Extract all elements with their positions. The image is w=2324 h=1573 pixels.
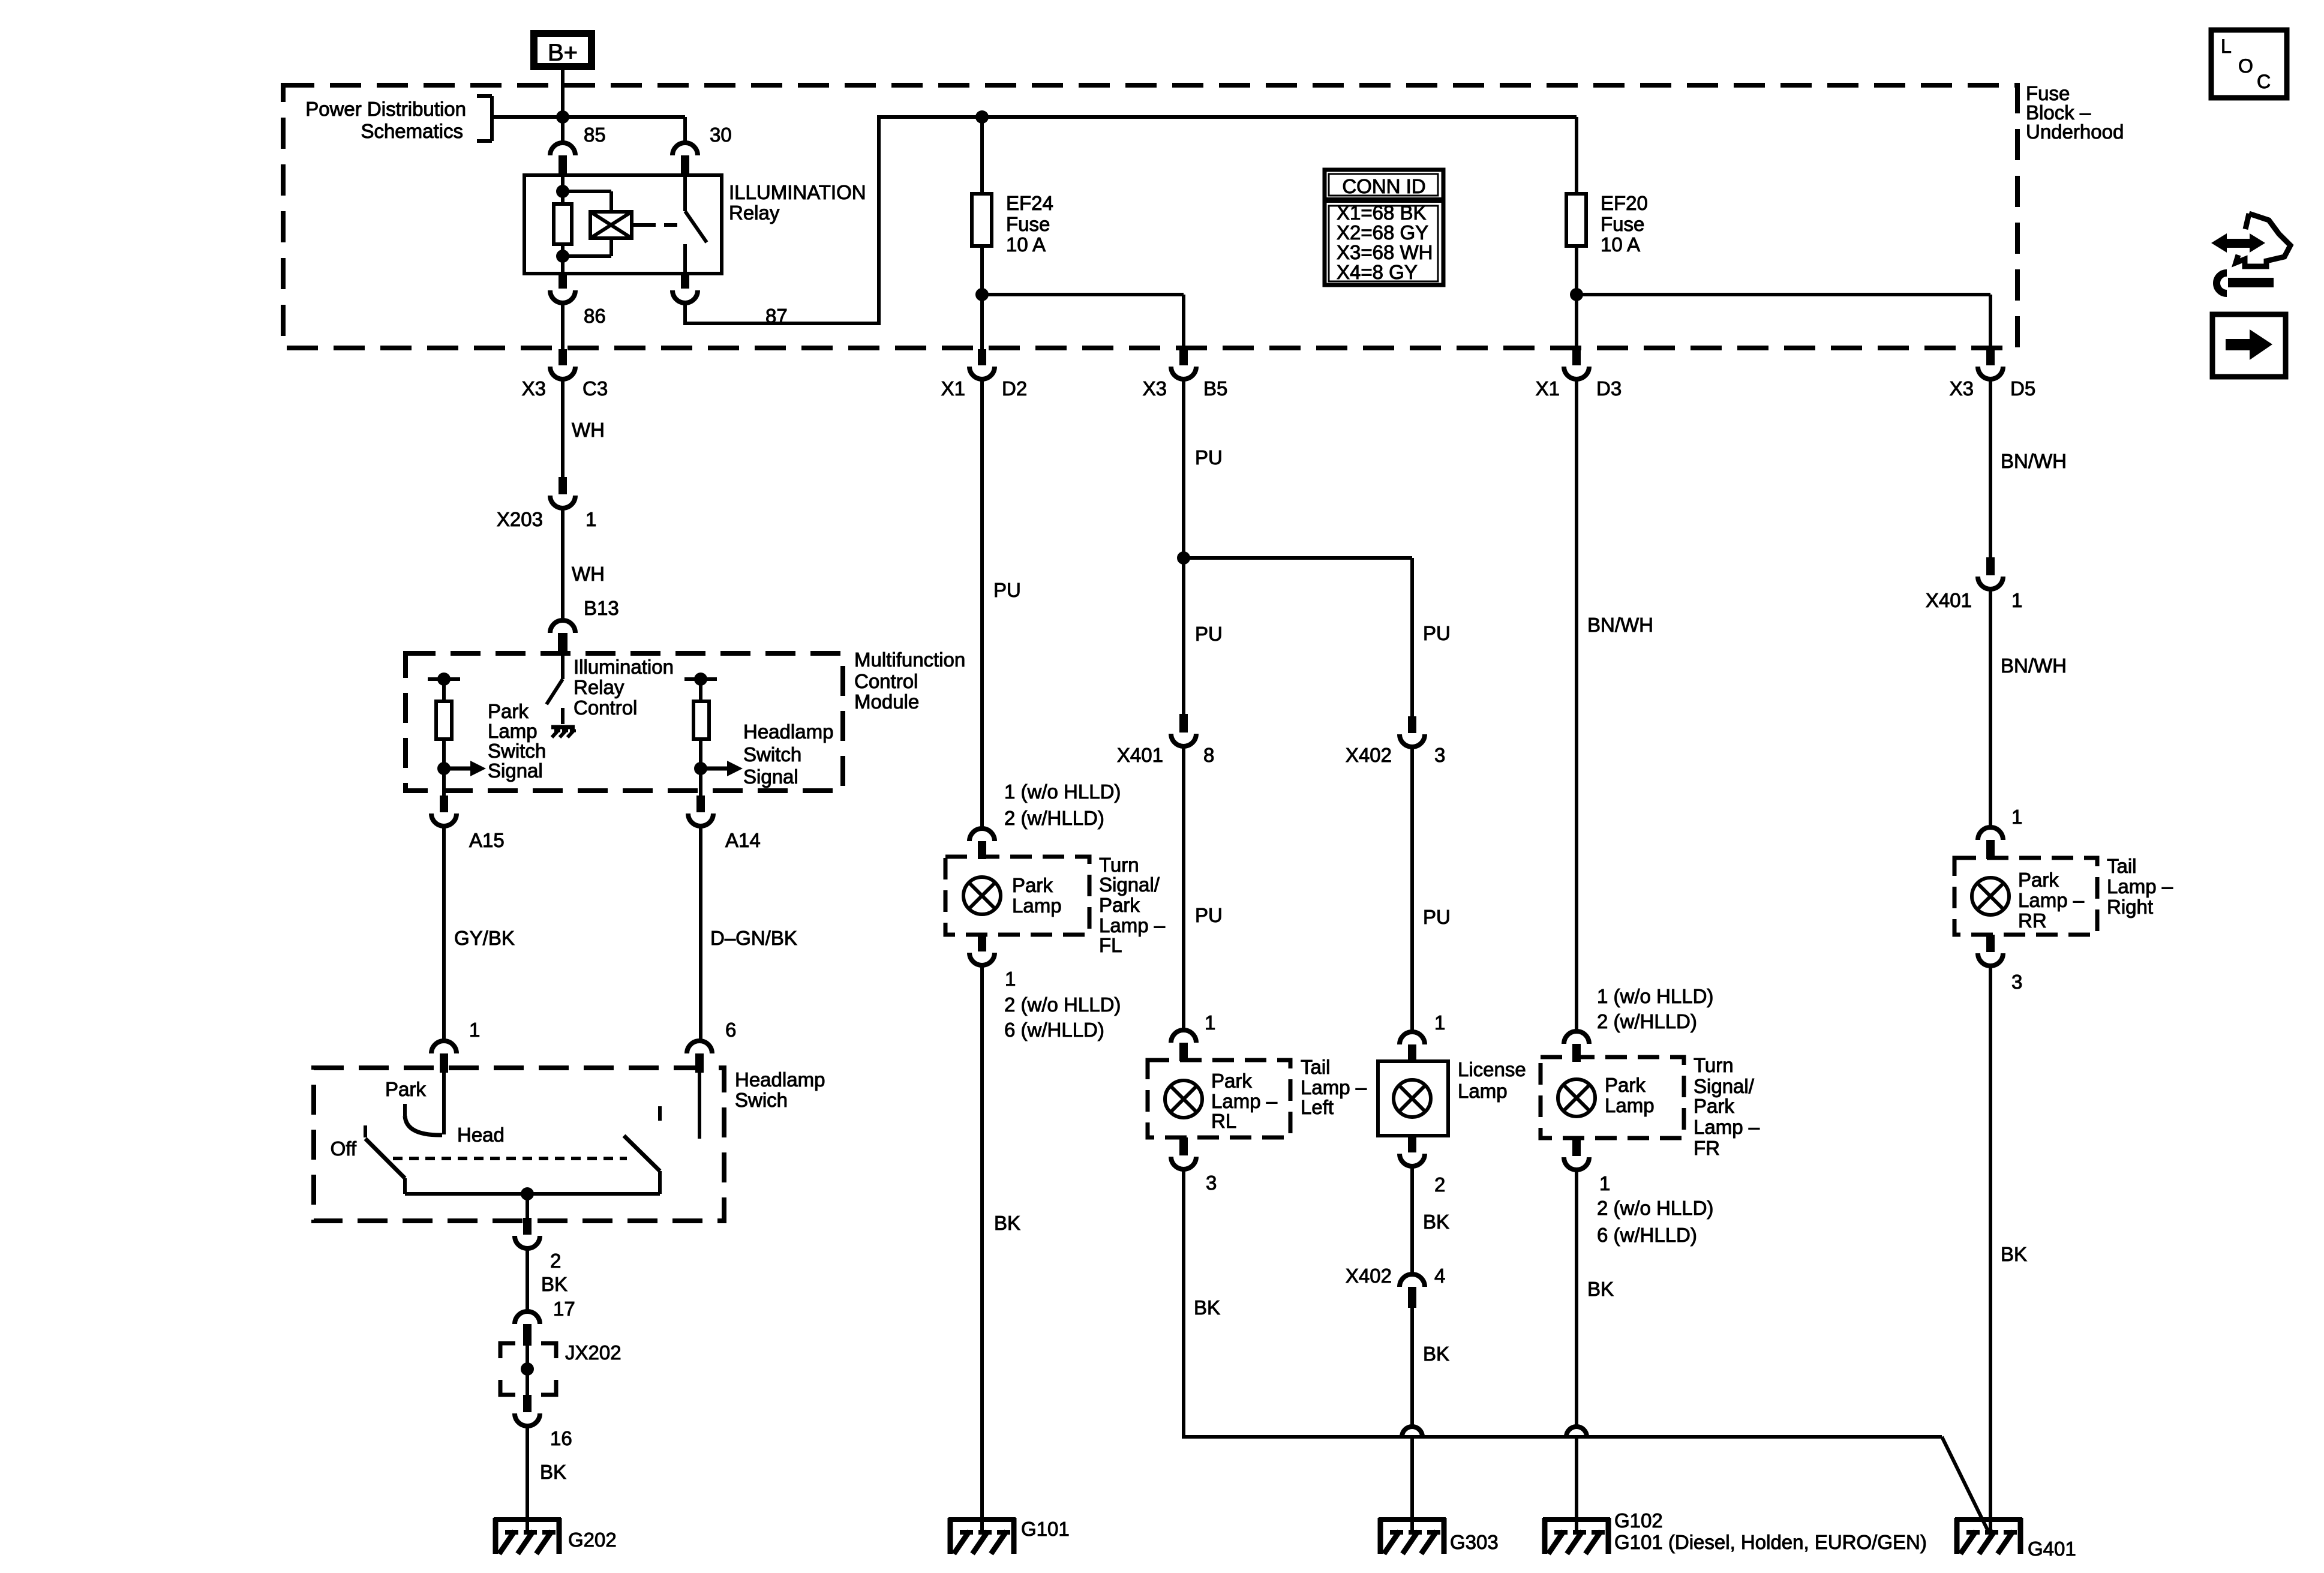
svg-text:Signal: Signal	[743, 766, 798, 788]
svg-text:BN/WH: BN/WH	[2001, 450, 2067, 472]
svg-text:D5: D5	[2010, 377, 2035, 400]
svg-text:Lamp –: Lamp –	[1211, 1090, 1278, 1112]
svg-text:Lamp: Lamp	[488, 720, 538, 742]
svg-text:X402: X402	[1346, 1265, 1392, 1287]
svg-text:PU: PU	[1423, 622, 1451, 644]
svg-text:BK: BK	[1423, 1343, 1449, 1365]
svg-text:Headlamp: Headlamp	[735, 1068, 825, 1091]
svg-text:8: 8	[1203, 744, 1214, 766]
svg-text:BN/WH: BN/WH	[1587, 614, 1653, 636]
svg-text:X402: X402	[1346, 744, 1392, 766]
svg-text:C3: C3	[582, 377, 608, 400]
svg-text:Lamp –: Lamp –	[1099, 914, 1166, 936]
svg-text:Relay: Relay	[574, 676, 624, 698]
svg-text:Lamp: Lamp	[1458, 1080, 1508, 1102]
svg-text:D2: D2	[1002, 377, 1027, 400]
svg-text:Tail: Tail	[2107, 855, 2137, 877]
svg-text:X4=8 GY: X4=8 GY	[1337, 261, 1418, 283]
svg-text:3: 3	[2011, 971, 2022, 993]
svg-text:30: 30	[710, 124, 732, 146]
svg-text:WH: WH	[572, 563, 605, 585]
svg-text:X401: X401	[1926, 589, 1972, 611]
svg-text:1: 1	[1434, 1011, 1445, 1034]
svg-text:Signal/: Signal/	[1099, 873, 1160, 896]
svg-text:Park: Park	[1605, 1074, 1646, 1096]
svg-text:Schematics: Schematics	[361, 120, 463, 142]
svg-text:2: 2	[550, 1250, 561, 1272]
svg-text:85: 85	[584, 124, 606, 146]
svg-text:X3: X3	[1950, 377, 1974, 400]
svg-text:Turn: Turn	[1694, 1054, 1734, 1076]
svg-text:Underhood: Underhood	[2026, 121, 2124, 143]
svg-text:G101 (Diesel, Holden, EURO/GEN: G101 (Diesel, Holden, EURO/GEN)	[1614, 1531, 1927, 1553]
svg-text:Off: Off	[331, 1137, 357, 1160]
svg-text:D–GN/BK: D–GN/BK	[710, 927, 797, 949]
svg-text:10 A: 10 A	[1601, 233, 1640, 256]
svg-text:Lamp –: Lamp –	[1301, 1076, 1367, 1098]
svg-text:Right: Right	[2107, 896, 2153, 918]
svg-text:6 (w/HLLD): 6 (w/HLLD)	[1004, 1019, 1104, 1041]
svg-text:Park: Park	[1099, 894, 1140, 916]
svg-text:Lamp –: Lamp –	[2018, 889, 2085, 911]
svg-text:G303: G303	[1450, 1531, 1499, 1553]
svg-text:X3: X3	[1143, 377, 1167, 400]
svg-text:10 A: 10 A	[1006, 233, 1046, 256]
svg-text:Lamp –: Lamp –	[2107, 875, 2173, 897]
svg-text:Signal: Signal	[488, 760, 543, 782]
svg-text:WH: WH	[572, 419, 605, 441]
svg-text:PU: PU	[1195, 446, 1223, 469]
svg-text:A14: A14	[725, 829, 761, 851]
svg-text:17: 17	[553, 1298, 575, 1320]
svg-text:X203: X203	[497, 508, 543, 530]
svg-text:L: L	[2221, 35, 2232, 57]
svg-text:X2=68 GY: X2=68 GY	[1337, 221, 1428, 244]
svg-text:EF24: EF24	[1006, 192, 1053, 214]
svg-text:Park: Park	[2018, 869, 2059, 891]
svg-text:PU: PU	[993, 579, 1021, 601]
svg-text:Park: Park	[1012, 874, 1053, 896]
svg-text:C: C	[2257, 71, 2271, 92]
svg-text:1: 1	[469, 1019, 480, 1041]
svg-text:1: 1	[2011, 589, 2022, 611]
svg-text:Park: Park	[488, 700, 529, 722]
svg-text:3: 3	[1206, 1172, 1217, 1194]
svg-text:X3=68 WH: X3=68 WH	[1337, 241, 1433, 263]
svg-text:Control: Control	[854, 670, 918, 692]
svg-text:PU: PU	[1195, 623, 1223, 645]
svg-text:ILLUMINATION: ILLUMINATION	[729, 181, 866, 203]
svg-text:1: 1	[1005, 968, 1016, 990]
svg-text:BK: BK	[2001, 1243, 2027, 1265]
svg-text:Swich: Swich	[735, 1089, 788, 1111]
svg-text:Control: Control	[574, 697, 637, 719]
svg-text:BK: BK	[994, 1212, 1020, 1234]
svg-text:PU: PU	[1195, 904, 1223, 926]
svg-text:Headlamp: Headlamp	[743, 721, 833, 743]
svg-text:GY/BK: GY/BK	[454, 927, 515, 949]
svg-text:BK: BK	[1194, 1296, 1220, 1319]
svg-text:RR: RR	[2018, 909, 2047, 932]
svg-text:Lamp: Lamp	[1605, 1094, 1655, 1116]
svg-text:JX202: JX202	[565, 1341, 621, 1364]
svg-text:G202: G202	[568, 1529, 617, 1551]
svg-text:4: 4	[1434, 1265, 1445, 1287]
svg-text:BK: BK	[541, 1273, 568, 1295]
svg-text:G102: G102	[1614, 1509, 1663, 1532]
svg-text:O: O	[2238, 55, 2253, 77]
svg-text:BK: BK	[540, 1461, 566, 1483]
svg-text:BN/WH: BN/WH	[2001, 655, 2067, 677]
svg-text:Switch: Switch	[488, 740, 546, 762]
svg-text:1: 1	[2011, 806, 2022, 828]
svg-text:CONN ID: CONN ID	[1342, 175, 1425, 197]
svg-text:Module: Module	[854, 691, 919, 713]
svg-text:X1=68 BK: X1=68 BK	[1337, 202, 1427, 224]
svg-text:Park: Park	[385, 1078, 426, 1100]
svg-text:BK: BK	[1587, 1278, 1614, 1300]
svg-text:Lamp: Lamp	[1012, 894, 1062, 917]
svg-text:Illumination: Illumination	[574, 656, 674, 678]
svg-text:FL: FL	[1099, 934, 1122, 956]
svg-text:RL: RL	[1211, 1110, 1236, 1132]
svg-text:PU: PU	[1423, 906, 1451, 928]
svg-text:B+: B+	[548, 40, 578, 66]
svg-text:Fuse: Fuse	[1006, 213, 1050, 235]
svg-text:2 (w/HLLD): 2 (w/HLLD)	[1004, 807, 1104, 829]
svg-text:6 (w/HLLD): 6 (w/HLLD)	[1597, 1224, 1697, 1246]
svg-text:X3: X3	[522, 377, 546, 400]
svg-text:Power Distribution: Power Distribution	[305, 98, 466, 120]
svg-text:3: 3	[1434, 744, 1445, 766]
svg-text:2 (w/o HLLD): 2 (w/o HLLD)	[1597, 1197, 1713, 1219]
svg-text:Fuse: Fuse	[1601, 213, 1644, 235]
svg-text:X1: X1	[1536, 377, 1560, 400]
svg-text:Left: Left	[1301, 1096, 1334, 1118]
svg-text:Park: Park	[1694, 1095, 1734, 1117]
svg-text:Park: Park	[1211, 1070, 1252, 1092]
svg-text:Switch: Switch	[743, 743, 801, 766]
svg-text:Signal/: Signal/	[1694, 1075, 1755, 1097]
svg-text:License: License	[1458, 1058, 1526, 1080]
svg-text:Head: Head	[457, 1124, 505, 1146]
svg-text:X1: X1	[941, 377, 965, 400]
svg-text:2: 2	[1434, 1173, 1445, 1196]
svg-text:Relay: Relay	[729, 202, 780, 224]
svg-text:2 (w/o HLLD): 2 (w/o HLLD)	[1004, 993, 1121, 1016]
svg-text:A15: A15	[469, 829, 505, 851]
svg-text:1: 1	[585, 508, 596, 530]
svg-text:FR: FR	[1694, 1137, 1720, 1159]
svg-text:Multifunction: Multifunction	[854, 649, 965, 671]
svg-text:EF20: EF20	[1601, 192, 1648, 214]
svg-text:16: 16	[550, 1427, 572, 1449]
svg-text:86: 86	[584, 305, 606, 327]
svg-text:B5: B5	[1203, 377, 1227, 400]
svg-text:Lamp –: Lamp –	[1694, 1116, 1760, 1138]
svg-text:G101: G101	[1021, 1518, 1070, 1540]
svg-text:1 (w/o HLLD): 1 (w/o HLLD)	[1004, 781, 1121, 803]
svg-text:1: 1	[1599, 1172, 1610, 1194]
svg-text:1 (w/o HLLD): 1 (w/o HLLD)	[1597, 985, 1713, 1007]
svg-text:B13: B13	[584, 597, 619, 619]
svg-text:X401: X401	[1117, 744, 1163, 766]
svg-text:D3: D3	[1596, 377, 1622, 400]
svg-text:6: 6	[725, 1019, 736, 1041]
svg-text:Turn: Turn	[1099, 854, 1139, 876]
svg-text:BK: BK	[1423, 1211, 1449, 1233]
svg-text:2 (w/HLLD): 2 (w/HLLD)	[1597, 1010, 1697, 1032]
svg-text:G401: G401	[2028, 1538, 2076, 1560]
svg-text:Tail: Tail	[1301, 1056, 1331, 1078]
svg-text:1: 1	[1205, 1011, 1215, 1034]
